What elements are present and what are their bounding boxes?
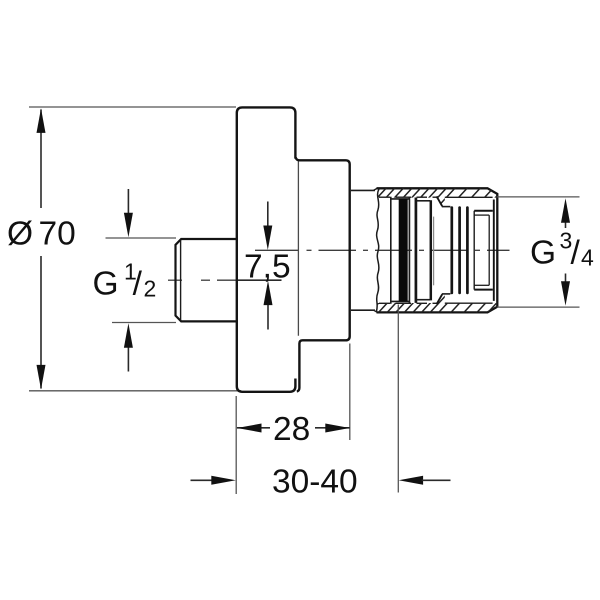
seal (black rubber) xyxy=(399,199,408,302)
arrowhead Ø70 up xyxy=(37,108,46,132)
dimension line Ø70 xyxy=(40,110,42,389)
nut bore line top xyxy=(379,196,493,198)
stub extension line bottom xyxy=(112,322,176,324)
extension line bottom (Ø70) xyxy=(29,390,241,392)
coupling end face xyxy=(493,200,495,301)
svg-text:30-40: 30-40 xyxy=(272,464,358,501)
coupling cylinder bottom edge xyxy=(474,289,493,291)
coupling chamfer line xyxy=(488,215,490,285)
svg-text:2: 2 xyxy=(144,276,157,302)
shoulder step bottom xyxy=(437,294,443,304)
svg-text:/: / xyxy=(571,235,581,272)
tube step bottom xyxy=(374,310,378,312)
7,5 lower reference line xyxy=(238,279,282,281)
arrowhead Ø70 down xyxy=(37,365,46,390)
svg-text:G: G xyxy=(93,266,119,303)
dimension line 30-40 left tail xyxy=(191,479,215,481)
svg-text:4: 4 xyxy=(581,244,594,270)
washer ring line C (thick divider) xyxy=(415,198,418,303)
arrowhead 28 right xyxy=(325,424,350,433)
dimension line 30-40 right tail xyxy=(422,479,451,481)
plate back edge xyxy=(297,161,299,336)
union nut outline xyxy=(377,188,498,312)
svg-text:G: G xyxy=(530,235,556,272)
G1/2 stub xyxy=(176,239,237,321)
nut bore line bottom xyxy=(379,302,493,304)
7,5 arrow down xyxy=(267,202,269,228)
hatch bottom band xyxy=(366,291,508,317)
svg-text:/: / xyxy=(133,266,143,303)
stub extension line top xyxy=(106,237,177,239)
washer ring line A xyxy=(390,197,392,304)
svg-text:28: 28 xyxy=(273,411,310,448)
coupling inner line bottom xyxy=(474,284,489,286)
extension line 28 right xyxy=(349,344,351,441)
adapter hidden edge xyxy=(433,217,435,286)
washer cap top xyxy=(391,198,410,200)
escutcheon plate xyxy=(237,107,296,391)
G1/2 arrow up xyxy=(127,348,129,372)
coupling cylinder top edge xyxy=(474,210,493,212)
arrowhead 30-40 left xyxy=(211,476,236,485)
G1/2 arrow down xyxy=(127,189,129,215)
svg-text:70: 70 xyxy=(39,216,76,253)
wide ring right line (thick divider) xyxy=(430,200,433,300)
wide ring cap top xyxy=(417,200,430,202)
wide ring cap bottom xyxy=(417,299,430,301)
G3/4 extension line bottom xyxy=(497,306,580,308)
arrowhead 30-40 right xyxy=(399,476,424,485)
washer ring line B xyxy=(408,198,410,303)
body (concealed cylinder) xyxy=(296,157,350,391)
supply tube bottom line xyxy=(351,309,375,311)
tube step top xyxy=(374,188,378,190)
thread ridges xyxy=(452,208,468,293)
stub chamfer line xyxy=(180,240,182,320)
G3/4 arrow up xyxy=(565,222,567,228)
coupling inner line top xyxy=(474,214,489,216)
svg-text:7,5: 7,5 xyxy=(244,249,291,286)
extension line 30-40 right xyxy=(397,305,399,493)
arrowhead 28 left xyxy=(237,424,262,433)
washer cap bottom xyxy=(391,300,410,302)
extension line top (Ø70) xyxy=(29,106,236,108)
svg-text:Ø: Ø xyxy=(7,216,33,253)
G3/4 extension line top xyxy=(497,196,580,198)
hatch top band xyxy=(366,184,508,210)
axis main (wall connection centerline y=250.3) xyxy=(255,249,510,251)
break squiggle xyxy=(376,189,379,311)
supply tube top line xyxy=(351,189,375,191)
G3/4 arrow down xyxy=(565,274,567,283)
axis stub (outlet centerline y=280.2) xyxy=(168,279,282,281)
7,5 arrow up xyxy=(267,304,269,330)
dimension line 28 xyxy=(237,427,270,429)
coupling cylinder left edge xyxy=(473,211,475,290)
shoulder step top xyxy=(437,196,443,206)
extension line 28 left / 30-40 left xyxy=(235,396,237,494)
